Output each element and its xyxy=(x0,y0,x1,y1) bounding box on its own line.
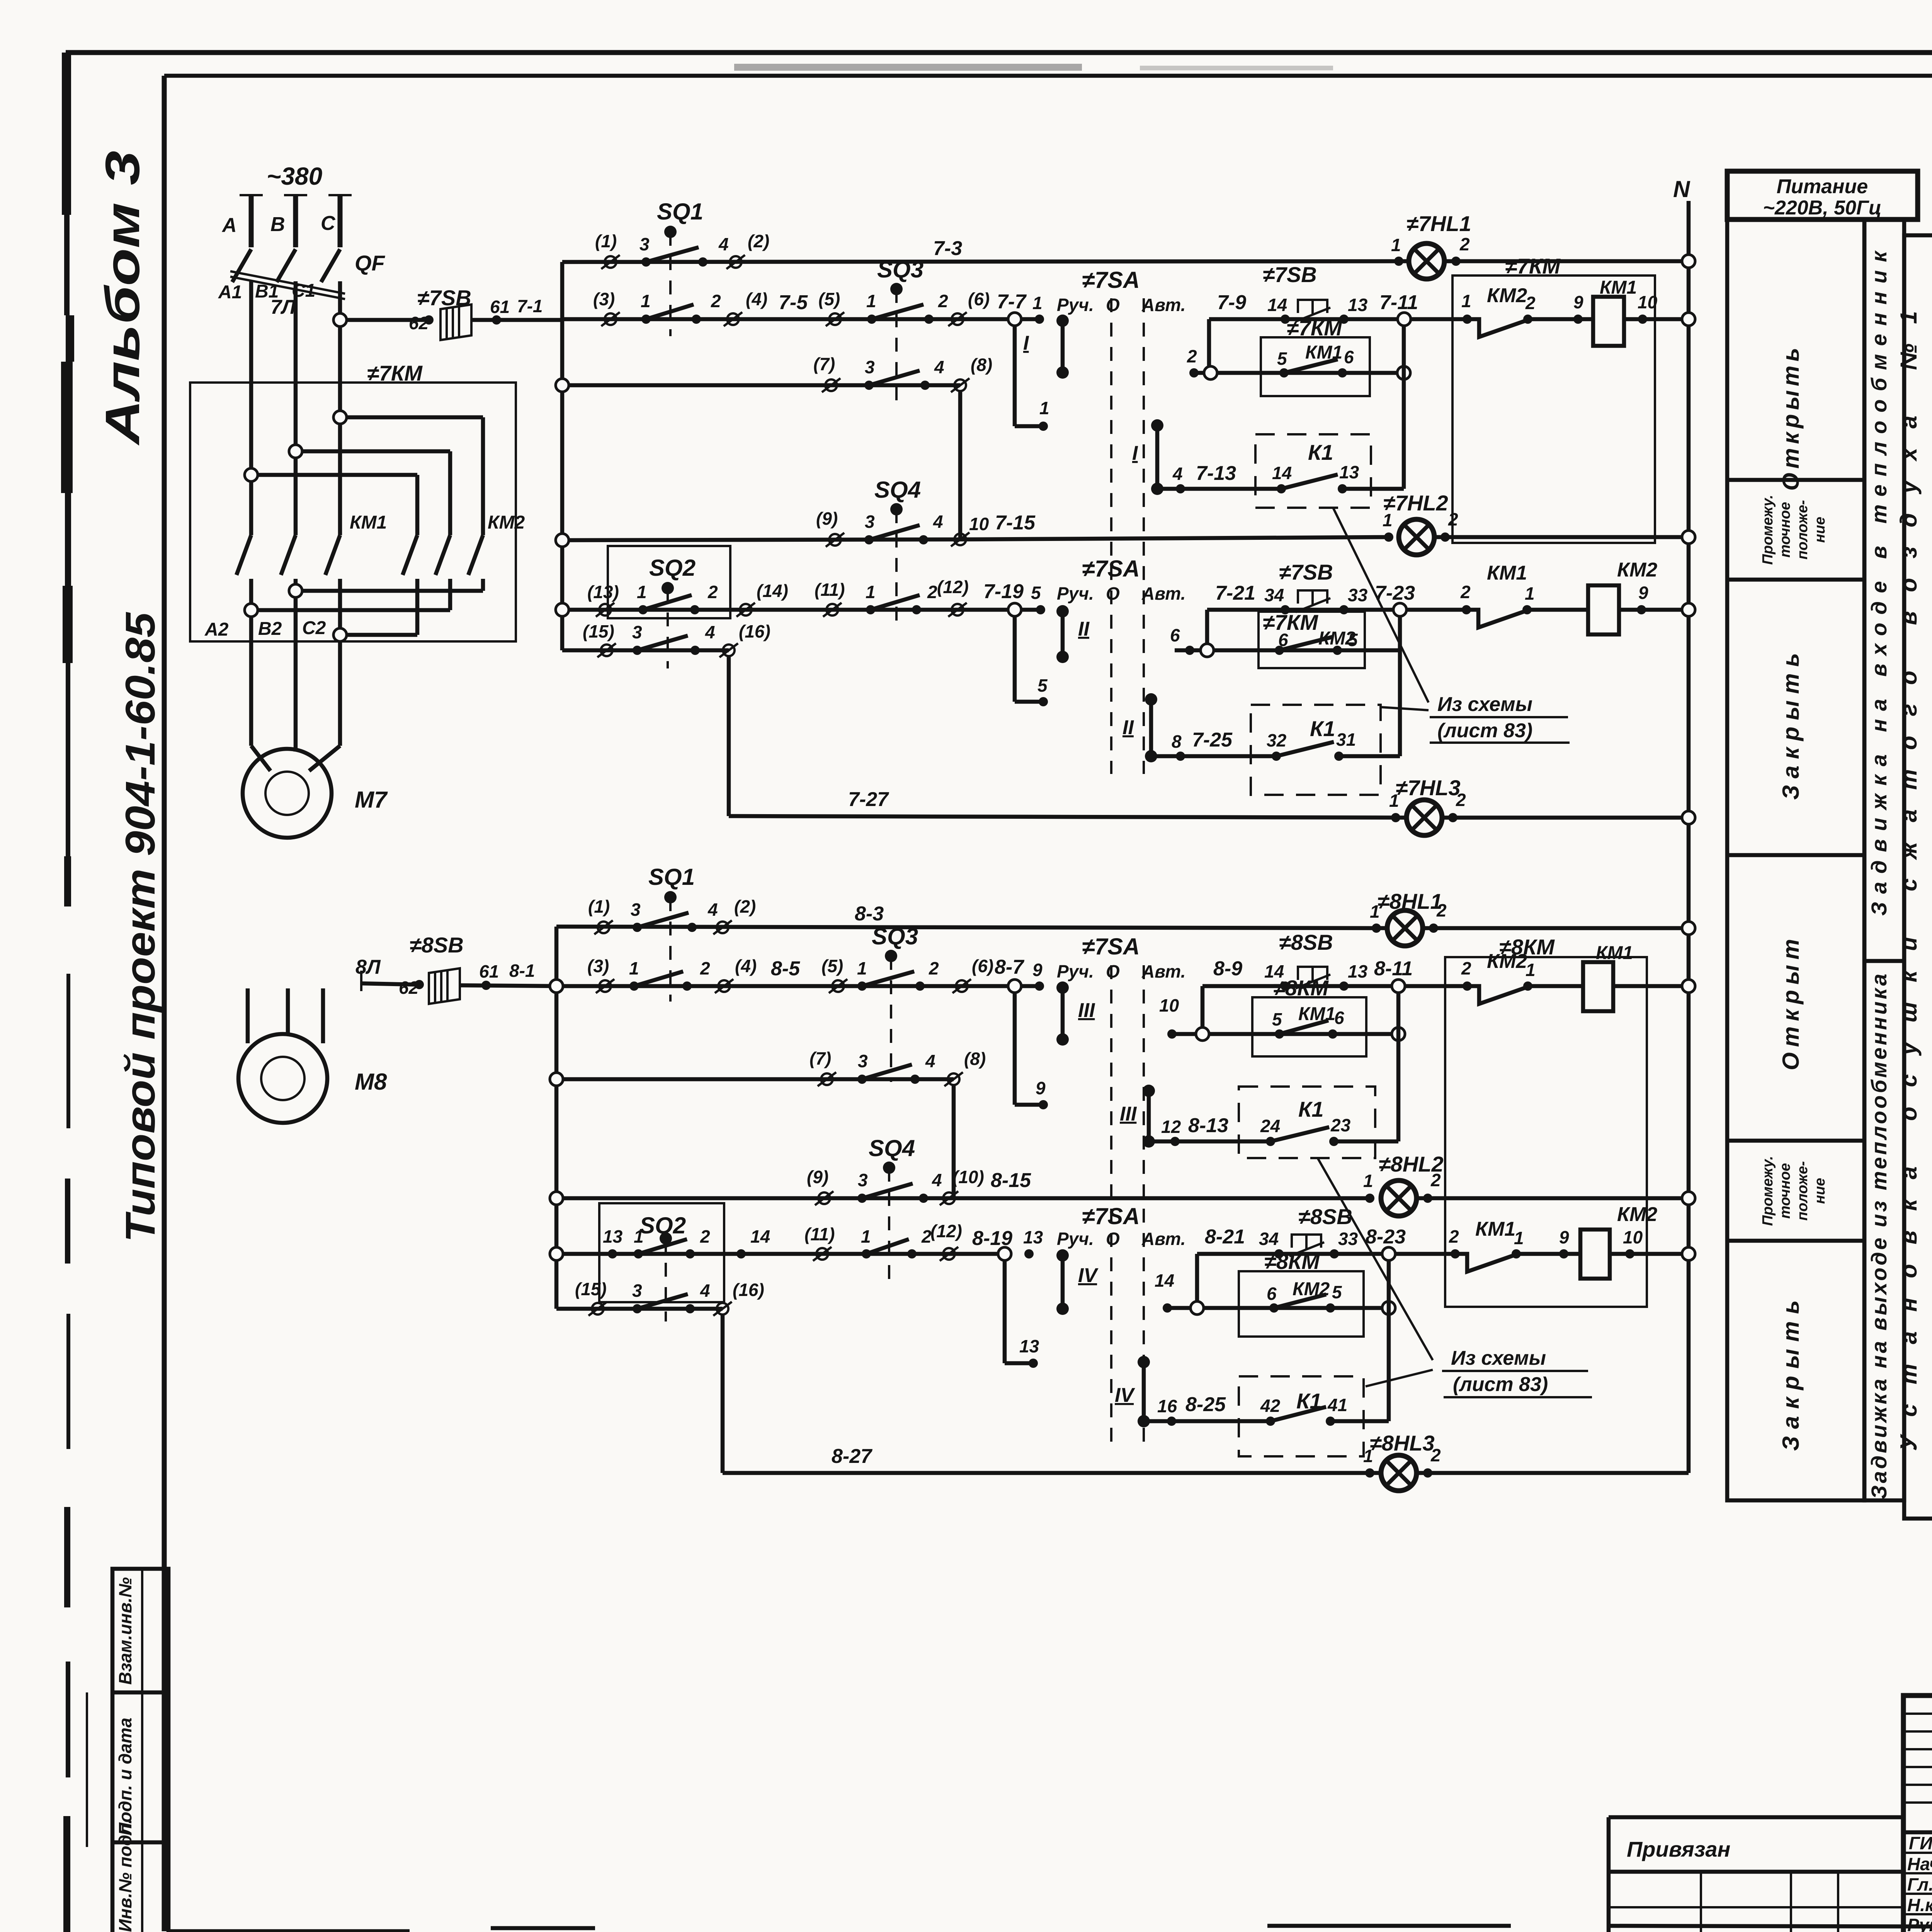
svg-text:Н.контр.: Н.контр. xyxy=(1907,1895,1932,1915)
svg-text:5: 5 xyxy=(1037,675,1048,696)
svg-text:7-15: 7-15 xyxy=(995,512,1036,534)
svg-text:2: 2 xyxy=(1448,509,1458,529)
svg-text:1: 1 xyxy=(866,291,876,311)
svg-text:Авт.: Авт. xyxy=(1141,961,1185,981)
svg-text:Промежу.: Промежу. xyxy=(1760,1156,1776,1226)
svg-text:(11): (11) xyxy=(815,580,845,600)
svg-text:SQ3: SQ3 xyxy=(877,257,923,282)
svg-text:7-13: 7-13 xyxy=(1196,462,1236,485)
svg-text:Привязан: Привязан xyxy=(1627,1837,1730,1861)
svg-text:1: 1 xyxy=(857,958,867,978)
svg-text:SQ2: SQ2 xyxy=(649,555,696,581)
svg-text:4: 4 xyxy=(705,622,715,642)
svg-text:24: 24 xyxy=(1260,1116,1280,1136)
svg-text:IV: IV xyxy=(1078,1264,1099,1287)
svg-text:2: 2 xyxy=(929,958,939,978)
svg-text:61: 61 xyxy=(479,961,499,981)
svg-text:1: 1 xyxy=(629,958,639,978)
svg-text:62: 62 xyxy=(409,313,429,333)
svg-text:точное: точное xyxy=(1777,1163,1793,1219)
svg-text:ние: ние xyxy=(1812,1178,1828,1204)
svg-text:≠7HL2: ≠7HL2 xyxy=(1383,491,1448,515)
svg-text:8-3: 8-3 xyxy=(855,903,884,925)
svg-text:4: 4 xyxy=(1172,464,1183,484)
svg-text:2: 2 xyxy=(700,1226,710,1247)
svg-text:1: 1 xyxy=(1363,1446,1373,1466)
svg-text:КМ1: КМ1 xyxy=(1600,277,1637,298)
svg-text:13: 13 xyxy=(1339,462,1359,482)
svg-text:3: 3 xyxy=(865,357,875,377)
svg-text:III: III xyxy=(1120,1103,1137,1125)
svg-text:(1): (1) xyxy=(588,896,610,917)
svg-text:(7): (7) xyxy=(813,354,835,374)
svg-text:31: 31 xyxy=(1336,730,1356,750)
svg-text:(14): (14) xyxy=(757,581,788,601)
svg-text:13: 13 xyxy=(1348,961,1368,981)
svg-text:9: 9 xyxy=(1036,1078,1046,1098)
svg-text:≠8HL3: ≠8HL3 xyxy=(1370,1431,1435,1455)
svg-text:(8): (8) xyxy=(971,355,992,375)
svg-text:А: А xyxy=(221,214,237,236)
svg-text:62: 62 xyxy=(399,978,419,998)
svg-text:SQ3: SQ3 xyxy=(872,923,918,949)
svg-text:≠7SA: ≠7SA xyxy=(1082,556,1140,582)
svg-text:3: 3 xyxy=(858,1051,868,1071)
svg-text:N: N xyxy=(1673,176,1690,202)
svg-text:I: I xyxy=(1132,442,1138,464)
svg-text:9: 9 xyxy=(1559,1227,1569,1247)
svg-text:(16): (16) xyxy=(733,1280,764,1300)
svg-text:QF: QF xyxy=(355,251,386,275)
svg-text:(8): (8) xyxy=(964,1049,986,1069)
svg-text:10: 10 xyxy=(969,514,989,534)
svg-text:8Л: 8Л xyxy=(355,956,381,978)
svg-text:14: 14 xyxy=(1155,1270,1174,1291)
svg-text:(5): (5) xyxy=(821,956,843,976)
svg-text:Подп. и дата: Подп. и дата xyxy=(115,1718,135,1835)
svg-text:М8: М8 xyxy=(355,1069,387,1095)
svg-text:О: О xyxy=(1106,295,1120,315)
svg-text:(лист 83): (лист 83) xyxy=(1453,1373,1548,1396)
svg-text:(13): (13) xyxy=(587,582,619,602)
svg-text:1: 1 xyxy=(1461,291,1471,311)
svg-text:Питание: Питание xyxy=(1777,175,1868,198)
svg-text:12: 12 xyxy=(1161,1117,1181,1137)
svg-text:Рук.гр.: Рук.гр. xyxy=(1907,1915,1932,1932)
svg-text:8-9: 8-9 xyxy=(1213,957,1242,980)
svg-text:Авт.: Авт. xyxy=(1141,583,1185,604)
svg-text:2: 2 xyxy=(1430,1445,1441,1465)
svg-text:16: 16 xyxy=(1157,1396,1177,1416)
svg-text:1: 1 xyxy=(1383,510,1393,530)
svg-text:ГИП: ГИП xyxy=(1909,1833,1932,1853)
svg-text:7-25: 7-25 xyxy=(1192,729,1233,751)
svg-text:положе-: положе- xyxy=(1794,1161,1811,1221)
svg-text:КМ2: КМ2 xyxy=(1617,559,1657,581)
svg-text:8-15: 8-15 xyxy=(991,1169,1031,1192)
svg-text:14: 14 xyxy=(1267,295,1287,315)
svg-text:7-5: 7-5 xyxy=(779,291,808,314)
svg-text:Взам.инв.№: Взам.инв.№ xyxy=(115,1577,135,1685)
svg-text:В2: В2 xyxy=(258,619,282,639)
svg-text:≠7SB: ≠7SB xyxy=(1279,560,1333,584)
svg-text:≠7КМ: ≠7КМ xyxy=(1263,610,1318,634)
svg-text:Открыт: Открыт xyxy=(1778,939,1804,1070)
svg-text:≠8КМ: ≠8КМ xyxy=(1273,976,1329,1000)
svg-text:(6): (6) xyxy=(968,289,990,309)
svg-text:2: 2 xyxy=(938,291,948,311)
svg-text:SQ4: SQ4 xyxy=(869,1135,915,1161)
svg-text:Авт.: Авт. xyxy=(1141,295,1185,315)
svg-text:8-21: 8-21 xyxy=(1205,1226,1245,1248)
svg-text:(15): (15) xyxy=(583,621,614,641)
svg-text:≠7SA: ≠7SA xyxy=(1082,1203,1140,1229)
svg-text:3: 3 xyxy=(631,900,641,920)
svg-text:5: 5 xyxy=(1332,1282,1342,1302)
svg-text:1: 1 xyxy=(1389,791,1399,811)
svg-text:8-7: 8-7 xyxy=(995,956,1024,978)
svg-text:5: 5 xyxy=(1031,583,1041,603)
svg-text:5: 5 xyxy=(1272,1009,1282,1029)
svg-text:Из схемы: Из схемы xyxy=(1451,1347,1546,1369)
svg-text:4: 4 xyxy=(707,900,718,920)
svg-text:33: 33 xyxy=(1338,1229,1358,1249)
svg-text:(9): (9) xyxy=(816,509,838,529)
svg-text:8-25: 8-25 xyxy=(1185,1393,1226,1416)
svg-text:3: 3 xyxy=(632,622,642,642)
svg-text:Задвижка на входе в теплообмен: Задвижка на входе в теплообменник xyxy=(1867,250,1891,916)
svg-text:6: 6 xyxy=(1344,347,1354,367)
svg-text:5: 5 xyxy=(1277,349,1287,369)
svg-text:~380: ~380 xyxy=(267,162,322,190)
svg-text:4: 4 xyxy=(925,1051,935,1071)
svg-text:13: 13 xyxy=(603,1226,623,1247)
svg-text:4: 4 xyxy=(934,357,944,377)
svg-text:2: 2 xyxy=(711,291,721,311)
svg-text:(2): (2) xyxy=(734,896,756,917)
svg-text:23: 23 xyxy=(1330,1115,1351,1135)
svg-text:(12): (12) xyxy=(937,577,969,597)
svg-text:Альбом 3: Альбом 3 xyxy=(96,151,150,446)
svg-text:2: 2 xyxy=(1449,1226,1459,1247)
svg-text:2: 2 xyxy=(921,1226,932,1247)
svg-text:1: 1 xyxy=(634,1226,644,1247)
svg-text:6: 6 xyxy=(1334,1008,1344,1028)
svg-text:≠7HL1: ≠7HL1 xyxy=(1406,211,1471,236)
svg-text:1: 1 xyxy=(1370,901,1380,922)
svg-text:41: 41 xyxy=(1327,1395,1347,1415)
svg-text:8-27: 8-27 xyxy=(832,1445,872,1468)
svg-text:Промежу.: Промежу. xyxy=(1760,495,1776,565)
svg-text:4: 4 xyxy=(933,512,943,532)
svg-text:(6): (6) xyxy=(972,956,993,976)
svg-text:8-23: 8-23 xyxy=(1366,1226,1406,1248)
svg-text:КМ2: КМ2 xyxy=(1487,284,1527,307)
svg-text:4: 4 xyxy=(718,234,729,254)
svg-text:2: 2 xyxy=(1430,1170,1441,1190)
svg-text:3: 3 xyxy=(639,234,650,254)
svg-text:3: 3 xyxy=(632,1281,642,1301)
svg-text:1: 1 xyxy=(866,582,876,602)
svg-text:(15): (15) xyxy=(575,1279,607,1299)
svg-text:≠8SB: ≠8SB xyxy=(410,933,464,957)
svg-text:13: 13 xyxy=(1023,1227,1043,1247)
svg-text:(2): (2) xyxy=(748,231,769,251)
svg-text:О: О xyxy=(1106,961,1120,981)
svg-text:≠7HL3: ≠7HL3 xyxy=(1396,776,1461,800)
svg-text:2: 2 xyxy=(1461,958,1471,978)
svg-text:≠8SB: ≠8SB xyxy=(1279,930,1333,954)
svg-text:≠8КМ: ≠8КМ xyxy=(1264,1249,1320,1274)
svg-text:7-21: 7-21 xyxy=(1215,582,1255,604)
svg-text:7-9: 7-9 xyxy=(1217,291,1246,314)
svg-text:3: 3 xyxy=(858,1170,868,1190)
svg-text:SQ1: SQ1 xyxy=(657,199,703,224)
svg-text:SQ1: SQ1 xyxy=(648,864,695,890)
svg-text:14: 14 xyxy=(1272,463,1292,483)
svg-text:≠7КМ: ≠7КМ xyxy=(1505,254,1561,278)
svg-text:7-1: 7-1 xyxy=(517,296,543,316)
svg-text:КМ1: КМ1 xyxy=(350,512,387,533)
svg-text:(5): (5) xyxy=(818,289,840,309)
svg-text:≠8КМ: ≠8КМ xyxy=(1499,935,1555,959)
svg-text:9: 9 xyxy=(1573,292,1583,312)
svg-text:2: 2 xyxy=(1456,790,1466,810)
svg-text:SQ4: SQ4 xyxy=(874,477,921,503)
svg-text:4: 4 xyxy=(700,1281,710,1301)
svg-text:(7): (7) xyxy=(810,1048,831,1068)
svg-text:1: 1 xyxy=(861,1226,871,1247)
svg-text:К1: К1 xyxy=(1298,1097,1324,1121)
svg-text:К1: К1 xyxy=(1310,716,1335,741)
svg-text:С2: С2 xyxy=(302,618,326,638)
svg-text:II: II xyxy=(1122,716,1134,739)
svg-text:32: 32 xyxy=(1267,730,1287,750)
svg-text:≠7КМ: ≠7КМ xyxy=(1287,316,1342,340)
svg-text:точное: точное xyxy=(1777,502,1793,558)
svg-text:7-27: 7-27 xyxy=(848,788,889,811)
svg-text:КМ1: КМ1 xyxy=(1596,943,1633,963)
svg-text:1: 1 xyxy=(637,582,647,602)
svg-text:(12): (12) xyxy=(930,1221,962,1241)
svg-text:Открыть: Открыть xyxy=(1778,348,1804,491)
svg-text:2: 2 xyxy=(707,582,718,602)
svg-text:1: 1 xyxy=(641,291,651,311)
svg-text:14: 14 xyxy=(750,1226,770,1247)
svg-text:7Л: 7Л xyxy=(270,296,296,318)
svg-text:Установка осушки сжатого возду: Установка осушки сжатого воздуха №1 xyxy=(1896,311,1922,1451)
svg-text:КМ2: КМ2 xyxy=(1617,1203,1657,1226)
svg-text:КМ2: КМ2 xyxy=(488,512,525,533)
svg-text:≠8SB: ≠8SB xyxy=(1298,1204,1352,1229)
svg-text:8-13: 8-13 xyxy=(1188,1114,1228,1137)
svg-text:Задвижка на выходе из теплообм: Задвижка на выходе из теплообменника xyxy=(1867,974,1891,1499)
svg-text:Руч.: Руч. xyxy=(1057,961,1094,981)
svg-text:(лист 83): (лист 83) xyxy=(1437,719,1532,742)
svg-text:7-23: 7-23 xyxy=(1375,582,1415,604)
svg-text:34: 34 xyxy=(1264,585,1284,605)
svg-text:(16): (16) xyxy=(739,621,770,641)
svg-text:Руч.: Руч. xyxy=(1057,295,1094,315)
svg-text:Из схемы: Из схемы xyxy=(1437,693,1532,716)
svg-text:≠7SB: ≠7SB xyxy=(1263,262,1317,287)
svg-text:О: О xyxy=(1106,1229,1120,1249)
svg-text:42: 42 xyxy=(1260,1396,1281,1416)
svg-text:Гл.спеч.: Гл.спеч. xyxy=(1907,1874,1932,1895)
svg-text:7-11: 7-11 xyxy=(1379,291,1418,314)
svg-text:2: 2 xyxy=(1459,234,1470,254)
svg-text:33: 33 xyxy=(1348,585,1368,605)
svg-text:(3): (3) xyxy=(593,289,615,309)
svg-text:8-1: 8-1 xyxy=(509,961,535,981)
svg-text:С: С xyxy=(321,212,336,235)
svg-text:8-11: 8-11 xyxy=(1374,957,1413,980)
svg-text:2: 2 xyxy=(1187,346,1197,366)
svg-text:2: 2 xyxy=(927,582,937,602)
svg-text:Авт.: Авт. xyxy=(1141,1229,1185,1249)
svg-text:7-7: 7-7 xyxy=(997,291,1027,313)
svg-text:А1: А1 xyxy=(218,282,242,303)
svg-text:7-3: 7-3 xyxy=(933,237,962,260)
svg-text:1: 1 xyxy=(1525,583,1535,604)
svg-text:Нач.отд.: Нач.отд. xyxy=(1907,1854,1932,1874)
svg-text:(1): (1) xyxy=(595,231,617,251)
svg-text:Руч.: Руч. xyxy=(1057,583,1094,604)
svg-text:КМ1: КМ1 xyxy=(1487,562,1527,584)
svg-text:1: 1 xyxy=(1363,1171,1373,1191)
svg-text:6: 6 xyxy=(1267,1284,1277,1304)
svg-text:3: 3 xyxy=(865,512,875,532)
svg-text:Руч.: Руч. xyxy=(1057,1229,1094,1249)
svg-text:7-19: 7-19 xyxy=(983,580,1024,603)
svg-text:~220В, 50Гц: ~220В, 50Гц xyxy=(1763,197,1882,219)
svg-text:положе-: положе- xyxy=(1794,500,1811,560)
svg-text:(10): (10) xyxy=(952,1167,984,1187)
svg-text:≠7КМ: ≠7КМ xyxy=(367,361,423,385)
svg-text:2: 2 xyxy=(700,958,710,978)
svg-text:6: 6 xyxy=(1170,625,1180,645)
svg-text:9: 9 xyxy=(1032,960,1043,980)
svg-text:13: 13 xyxy=(1019,1336,1039,1356)
svg-text:(4): (4) xyxy=(735,956,757,976)
svg-text:Типовой проект 904-1-60.85: Типовой проект 904-1-60.85 xyxy=(117,612,163,1242)
svg-text:10: 10 xyxy=(1623,1227,1643,1247)
svg-text:5: 5 xyxy=(1348,630,1358,650)
svg-text:IV: IV xyxy=(1115,1384,1135,1406)
svg-text:КМ1: КМ1 xyxy=(1298,1004,1335,1024)
svg-text:≠7SA: ≠7SA xyxy=(1082,934,1140,959)
svg-text:О: О xyxy=(1106,583,1120,604)
svg-text:II: II xyxy=(1078,618,1090,640)
svg-text:9: 9 xyxy=(1638,583,1648,603)
svg-text:I: I xyxy=(1023,332,1029,354)
svg-text:(9): (9) xyxy=(807,1167,828,1187)
svg-text:4: 4 xyxy=(932,1170,942,1190)
svg-text:61: 61 xyxy=(490,297,510,317)
svg-text:А2: А2 xyxy=(204,619,229,640)
svg-text:2: 2 xyxy=(1460,582,1471,602)
svg-text:1: 1 xyxy=(1391,235,1401,255)
svg-text:Закрыть: Закрыть xyxy=(1778,653,1804,800)
svg-text:34: 34 xyxy=(1259,1229,1279,1249)
svg-text:В: В xyxy=(270,213,285,236)
svg-text:(4): (4) xyxy=(746,289,767,309)
svg-text:Закрыть: Закрыть xyxy=(1778,1300,1804,1451)
svg-text:КМ1: КМ1 xyxy=(1475,1218,1515,1240)
svg-text:III: III xyxy=(1078,999,1095,1022)
svg-text:(3): (3) xyxy=(587,956,609,976)
svg-text:(11): (11) xyxy=(804,1224,835,1244)
svg-text:ние: ние xyxy=(1812,517,1828,543)
svg-text:К1: К1 xyxy=(1308,440,1333,464)
svg-text:8-5: 8-5 xyxy=(771,957,800,980)
svg-text:Инв.№ подл.: Инв.№ подл. xyxy=(115,1819,135,1932)
svg-text:8: 8 xyxy=(1172,731,1182,752)
svg-text:≠7SA: ≠7SA xyxy=(1082,267,1140,293)
svg-text:2: 2 xyxy=(1436,900,1447,920)
svg-text:10: 10 xyxy=(1159,995,1179,1015)
svg-text:13: 13 xyxy=(1348,295,1368,315)
svg-text:1: 1 xyxy=(1039,398,1049,418)
svg-text:М7: М7 xyxy=(355,787,388,813)
svg-text:1: 1 xyxy=(1032,293,1043,313)
